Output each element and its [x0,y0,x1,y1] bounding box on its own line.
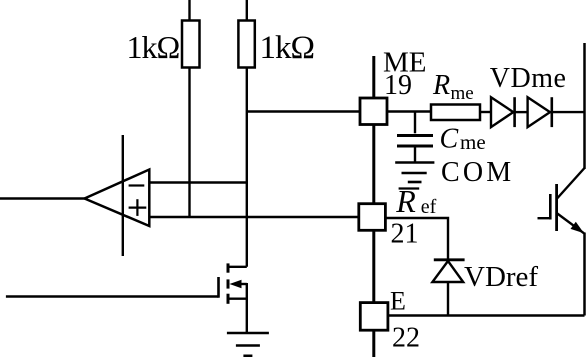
svg-text:1kΩ: 1kΩ [260,30,315,66]
svg-text:me: me [451,83,474,104]
channel segment body [227,279,230,288]
channel segment drain [227,263,230,272]
ground [227,333,269,356]
svg-text:R: R [395,183,416,219]
diode VDme second [528,97,552,127]
source lead [228,298,247,300]
transistor Q2 IGBT [538,168,585,233]
terminal pad pin 21 [359,204,386,231]
gate bar [217,277,220,298]
svg-text:VDref: VDref [464,261,538,293]
body arrow [238,283,247,285]
wire right bus top segment [583,43,586,169]
transistor Q1 MOSFET [6,263,247,333]
source down wire [246,283,248,333]
gate bar [549,194,552,220]
resistor R2 1kOhm right [238,21,254,68]
op-amp U1 [85,170,150,227]
wire op-amp plus input to pin 21 [149,216,359,218]
svg-text:21: 21 [391,219,419,250]
terminal pad pin 22 [360,303,388,331]
wire pin19 to Rme [388,110,432,112]
diode VDme first [491,97,515,127]
wire right resistor top lead [246,0,248,21]
svg-text:COM: COM [441,157,514,188]
wire right resistor line down to MOSFET drain [246,68,248,267]
svg-text:VDme: VDme [490,63,567,94]
label Ref with overbar [399,187,420,189]
wire terminal bus ME/Ref/E [372,56,375,357]
drain lead [228,266,247,268]
emitter lead [557,213,584,233]
wire op-amp minus input [149,181,248,183]
gate lead [6,295,219,297]
svg-text:1kΩ: 1kΩ [127,29,180,65]
svg-text:22: 22 [392,322,420,353]
svg-text:E: E [390,287,406,316]
channel segment source [227,294,230,304]
wire right bus bottom segment [583,233,586,316]
wire op-amp output [0,197,85,199]
wire left resistor bottom lead to + input line [188,68,190,218]
wire diodes to right bus [552,111,585,113]
svg-text:19: 19 [384,70,412,101]
collector lead [557,168,585,199]
svg-text:R: R [432,70,450,101]
terminal pad pin 19 [360,98,387,125]
diode VDref [432,260,464,316]
body bar [555,184,558,231]
wire left resistor top lead [188,0,190,21]
wire node to pin 19 [247,110,360,112]
resistor R1 1kOhm left [182,21,200,68]
ground COM symbol [395,163,434,183]
gate lead [538,217,550,219]
svg-text:C: C [440,124,459,155]
svg-text:me: me [460,130,486,154]
capacitor Cme [397,112,433,163]
wire Rme to diode [480,111,491,113]
wire op-amp supply line [122,135,124,256]
resistor Rme [431,105,480,121]
wire pin21 to VDref [385,218,448,259]
wire between diodes [515,111,528,113]
wire E line [388,314,585,316]
svg-text:ef: ef [421,196,437,218]
